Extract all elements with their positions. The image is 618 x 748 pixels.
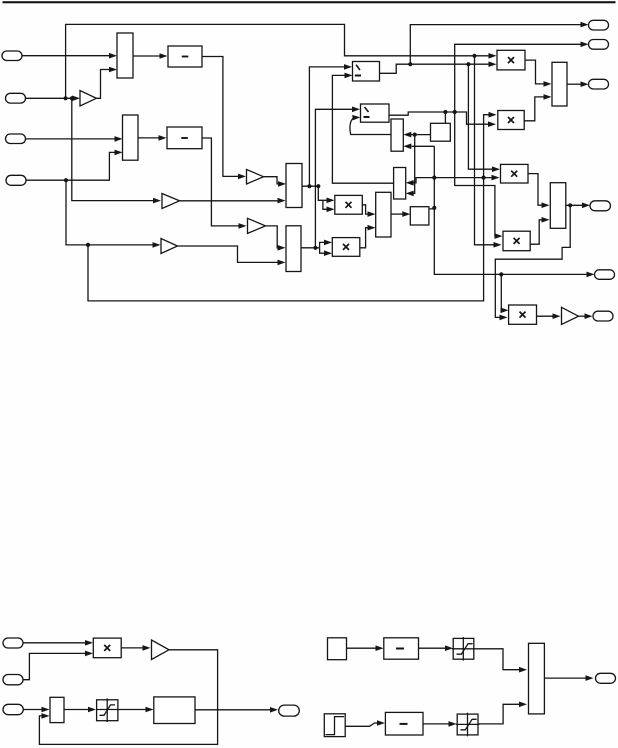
wire D2-out up to output Out2 bbox=[455, 42, 589, 113]
wire In2 down-branch to gain G2 bbox=[72, 98, 161, 203]
junction ZA-out branch down bbox=[413, 133, 417, 137]
wire G2 to sum SL1 input 2 bbox=[180, 198, 286, 204]
input port BIn1 bbox=[3, 638, 23, 648]
sum SL2 bbox=[286, 226, 301, 272]
wire SL2 to divider D2 input 1 bbox=[315, 107, 360, 248]
wire SB to saturation SatB bbox=[64, 707, 96, 713]
wire G6 to Out6 bbox=[579, 313, 593, 319]
junction SL2 to divider D2 bbox=[313, 246, 317, 250]
product X3 bbox=[501, 164, 529, 183]
product X5 bbox=[509, 305, 537, 324]
wire SR6 to Out4 bbox=[566, 203, 590, 209]
mux MC bbox=[529, 643, 545, 714]
output port Out4 bbox=[590, 201, 611, 211]
wire X2 to sum SR5 input 2 bbox=[524, 94, 551, 121]
sum S2 bbox=[167, 127, 202, 149]
junction X1-in1 line branch down bbox=[472, 54, 476, 58]
step source C2 bbox=[324, 714, 345, 737]
wire SatC2 to mux MC input 2 bbox=[478, 702, 527, 724]
wire delayB net to sum SR3 input 1 bbox=[406, 178, 435, 186]
product X2 bbox=[498, 111, 524, 130]
mux M2 bbox=[123, 115, 139, 160]
junction SR6 feedback bbox=[568, 203, 572, 207]
junction delayB net y208 bbox=[432, 206, 436, 210]
constant C1 bbox=[328, 638, 347, 660]
gain G3 bbox=[247, 170, 264, 185]
wire G3 to sum SL1 input 1 bbox=[264, 177, 287, 187]
wire ZA output to sum SR1 input 1 (leftward) bbox=[403, 132, 430, 138]
wire C1 to transfer T1 bbox=[347, 645, 384, 651]
product XB bbox=[332, 238, 360, 257]
wire D1 output to Out1 line bbox=[380, 61, 497, 73]
input port In4 bbox=[6, 175, 26, 185]
output port COut bbox=[596, 673, 616, 683]
input port In3 bbox=[6, 134, 26, 144]
wire SL2 to product XB input 2 bbox=[320, 248, 332, 256]
wire to output Out1 bbox=[410, 22, 588, 64]
junction G4-line branch down bbox=[86, 243, 90, 247]
junction SL1 to divider D1 bbox=[307, 184, 311, 188]
output port Out6 bbox=[593, 311, 613, 321]
wire G5 to sum SL2 input 1 bbox=[266, 226, 286, 251]
wire ZB output to junction bbox=[429, 208, 434, 209]
wire delay-B net vertical to Out5 bbox=[434, 146, 594, 277]
gain G2 bbox=[162, 194, 180, 209]
saturation SatC1 bbox=[452, 637, 475, 661]
wire SR3 output to divider D1 input 2 bbox=[332, 73, 393, 184]
wire SR1 output arc to divider D2 input 2 bbox=[350, 115, 391, 135]
wire M2 to sum S2 bbox=[138, 135, 167, 141]
saturation SatB bbox=[97, 698, 118, 722]
saturation SatC2 bbox=[456, 713, 480, 737]
wire C2 to transfer T2 bbox=[345, 720, 385, 726]
wire delayB net to product X3 input 2 bbox=[434, 175, 499, 181]
wire T2 to saturation SatC2 bbox=[423, 721, 457, 727]
wire SR4 to delay ZB bbox=[391, 211, 410, 217]
sum S1 bbox=[168, 46, 202, 67]
wire In4 long feedback to product X2 input 1 bbox=[88, 112, 497, 301]
wire D2-out down to product X4 input 1 bbox=[455, 112, 503, 239]
wire SL1 to product XA input 1 bbox=[318, 186, 334, 203]
wire FB to output BOut bbox=[195, 707, 278, 713]
wire XB to sum SR4 input 2 bbox=[360, 225, 376, 248]
sum SR4 bbox=[376, 192, 391, 237]
product XA bbox=[335, 195, 363, 214]
wire BIn1 to product X6 bbox=[23, 640, 93, 646]
junction delayB net y178 bbox=[432, 176, 436, 180]
product X6 bbox=[93, 638, 121, 658]
delay ZA bbox=[431, 123, 451, 141]
sum SB bbox=[50, 697, 64, 722]
wire SL1 output bbox=[302, 185, 318, 187]
wire SatC1 to mux MC input 1 bbox=[474, 649, 527, 673]
gain G7 bbox=[152, 640, 170, 660]
wire SR5 to Out3 bbox=[567, 81, 589, 87]
junction D2-out to delay ZA bbox=[443, 110, 447, 114]
wire BIn3 to sum SB bbox=[23, 707, 49, 713]
output port Out2 bbox=[589, 40, 609, 50]
transfer function T1 bbox=[384, 638, 419, 659]
wire SL1 to product XA input 2 bbox=[323, 200, 335, 212]
gain G1 bbox=[80, 91, 96, 107]
divider D2 bbox=[361, 104, 390, 122]
wire S2 to gain G5 bbox=[202, 138, 247, 229]
wire D1-out down to product X3 input 1 bbox=[468, 64, 500, 172]
gain G6 bbox=[562, 307, 579, 324]
wire In3 to mux M2 bbox=[26, 136, 123, 142]
wire T1 to saturation SatC1 bbox=[419, 645, 454, 651]
delay ZB bbox=[410, 207, 429, 225]
wire XA to sum SR4 input 1 bbox=[362, 205, 375, 217]
sum SL1 bbox=[286, 164, 302, 208]
gain G4 bbox=[161, 239, 178, 254]
input port BIn3 bbox=[3, 704, 23, 714]
wire D2-out into delay ZA bbox=[444, 112, 446, 123]
wire SL2 to product XB input 1 bbox=[320, 240, 332, 248]
wire X6 to gain G7 bbox=[121, 645, 150, 651]
wire X1 to sum SR5 input 1 bbox=[525, 60, 552, 87]
wire MC to output COut bbox=[544, 675, 593, 681]
sum SR1 (right-fed) bbox=[391, 119, 403, 151]
wire In4 branch down to gain G4 bbox=[66, 180, 161, 248]
wire S1 to gain G3 bbox=[202, 57, 246, 180]
junction In4 net at y178 bbox=[482, 176, 486, 180]
junction D1-out to Out1 bbox=[408, 62, 412, 66]
input port In1 bbox=[2, 51, 22, 61]
wire Out5-line branch to product X5 input 1 bbox=[501, 274, 509, 313]
wire ZA-out down to sum SR2 input 2 (leftward) bbox=[406, 135, 415, 197]
wire SL2 output bbox=[301, 247, 320, 249]
output port Out5 bbox=[595, 270, 615, 280]
wire In2 up-branch to product X1 input 1 bbox=[66, 24, 497, 98]
junction D1-out branch down bbox=[466, 62, 470, 66]
wire X4 to sum SR6 input 2 bbox=[530, 217, 549, 244]
junction Out5 line branch bbox=[499, 272, 503, 276]
sum SR6 bbox=[550, 183, 566, 229]
wire G7 feedback to sum SB input 2 bbox=[39, 650, 217, 745]
product X4 bbox=[503, 231, 530, 251]
input port In2 bbox=[6, 93, 26, 103]
product X1 bbox=[497, 50, 525, 70]
mux M1 bbox=[117, 33, 133, 78]
junction In2 branch up bbox=[64, 96, 68, 100]
junction D2-out to Out2 bbox=[453, 110, 457, 114]
wire In2 branch down to product X4 input 2 bbox=[475, 56, 502, 248]
wire G1 to mux M1 input 2 bbox=[96, 67, 117, 99]
gain G5 bbox=[248, 218, 266, 233]
sum SR5 bbox=[552, 62, 567, 106]
top rule bbox=[3, 1, 616, 3]
sum SR3 (right-fed) bbox=[394, 168, 406, 200]
wire G4 to sum SL2 input 2 bbox=[178, 246, 286, 265]
junction SL1 to product XA bbox=[316, 184, 320, 188]
transfer function FB bbox=[154, 697, 195, 724]
wire SL1 to divider D1 input 1 bbox=[309, 64, 352, 186]
wire M1 to sum S1 bbox=[133, 53, 168, 59]
junction In2 branch down bbox=[70, 96, 74, 100]
output port BOut bbox=[279, 705, 300, 716]
wire D2 output jog line bbox=[389, 112, 496, 127]
wire X3 to sum SR6 input 1 bbox=[528, 174, 550, 208]
junction In4 branch bbox=[64, 178, 68, 182]
wire In1 to mux M1 bbox=[22, 53, 117, 59]
wire SatB to transfer FB bbox=[118, 707, 154, 713]
output port Out1 bbox=[589, 20, 609, 30]
wire SR6 feedback to product X5 input 2 bbox=[495, 205, 570, 320]
transfer function T2 bbox=[385, 712, 423, 735]
wire X5 to gain G6 bbox=[537, 313, 561, 319]
wire In4 to mux M2 input 2 bbox=[26, 150, 123, 181]
output port Out3 bbox=[589, 79, 609, 89]
divider D1 bbox=[353, 62, 380, 82]
wire In2 to gain G1 bbox=[26, 96, 81, 102]
input port BIn2 bbox=[3, 675, 23, 685]
wire BIn2 to product X6 input 2 bbox=[23, 651, 93, 680]
wire SR1 input 2 from delay-B net (leftward) bbox=[403, 144, 434, 150]
